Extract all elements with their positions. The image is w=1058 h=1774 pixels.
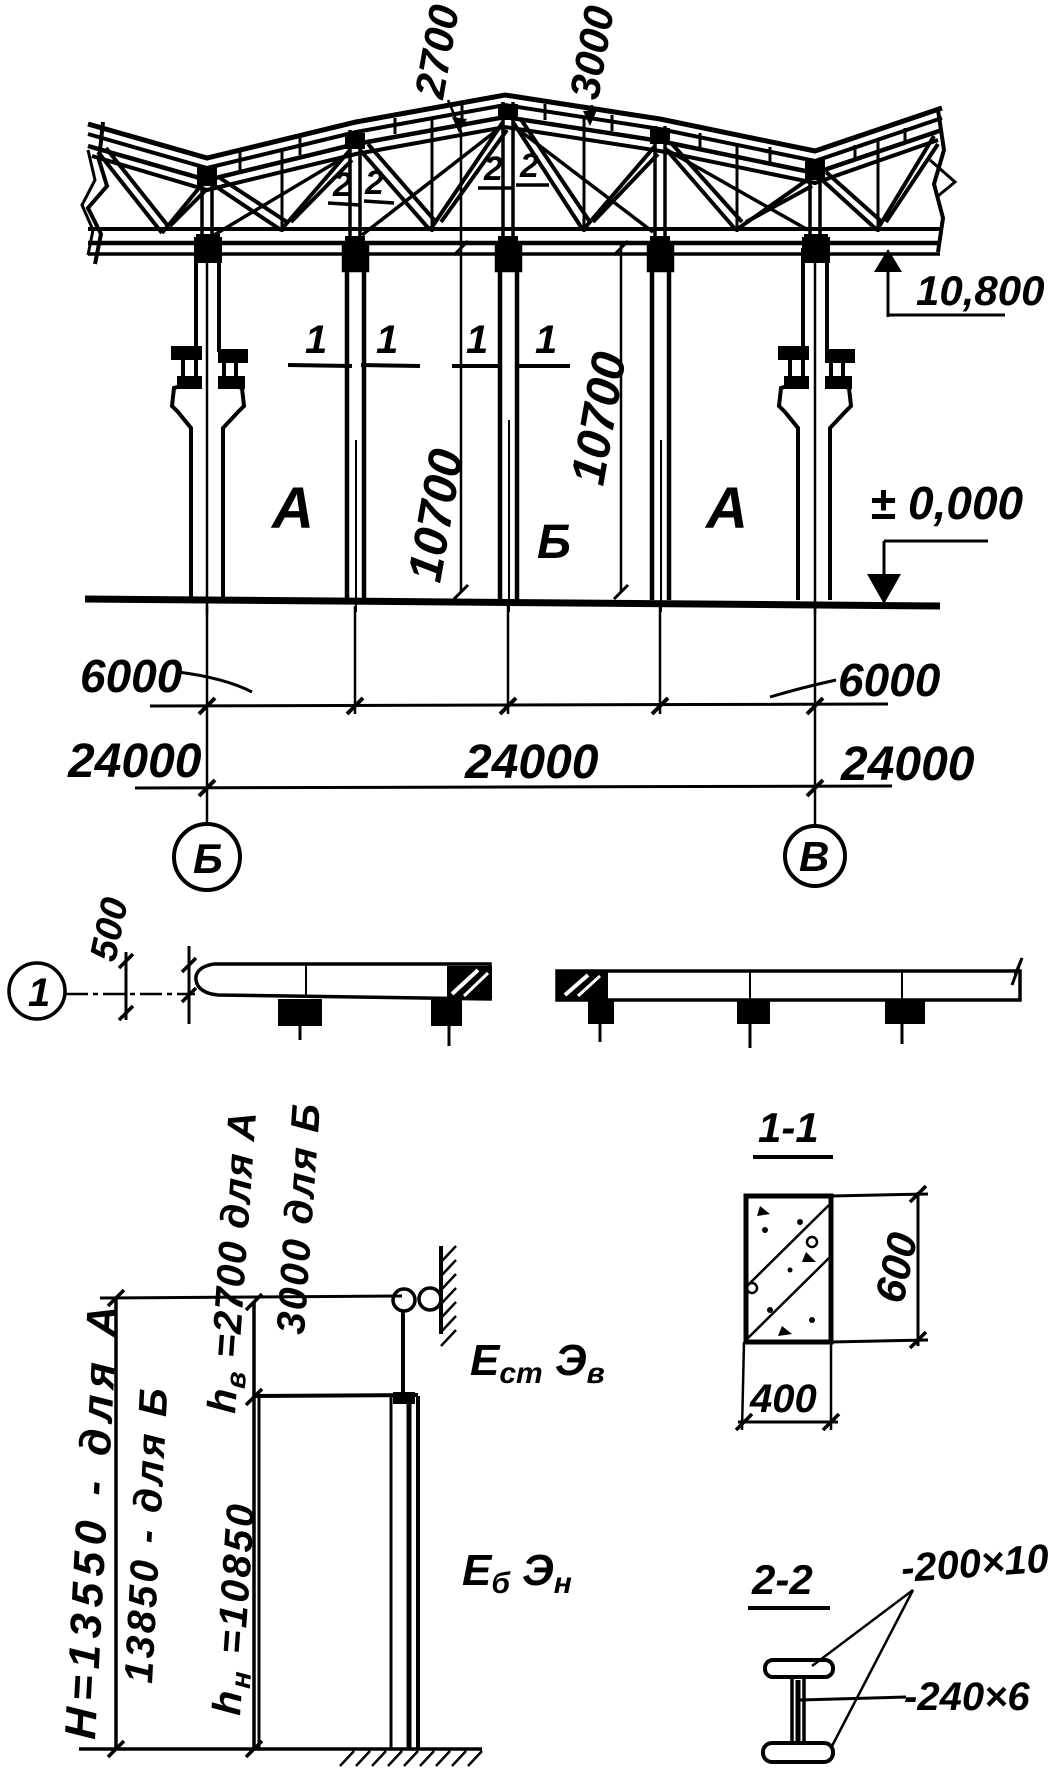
svg-text:1: 1 — [376, 318, 398, 362]
svg-text:2-2: 2-2 — [751, 1556, 813, 1603]
svg-text:10,800: 10,800 — [916, 267, 1044, 314]
svg-text:1: 1 — [535, 318, 557, 362]
svg-text:2: 2 — [332, 166, 352, 204]
svg-text:Б: Б — [537, 516, 571, 569]
svg-text:± 0,000: ± 0,000 — [870, 477, 1024, 529]
svg-text:24000: 24000 — [840, 738, 975, 791]
svg-text:Б: Б — [193, 835, 223, 882]
svg-text:A: A — [270, 476, 314, 541]
svg-text:1: 1 — [466, 318, 488, 362]
svg-text:A: A — [704, 476, 748, 541]
svg-text:400: 400 — [749, 1377, 817, 1421]
svg-text:6000: 6000 — [80, 650, 183, 702]
svg-text:2: 2 — [519, 147, 539, 185]
svg-text:24000: 24000 — [464, 736, 599, 789]
svg-text:-240×6: -240×6 — [904, 1675, 1030, 1719]
svg-text:6000: 6000 — [838, 654, 941, 706]
svg-text:2: 2 — [364, 164, 384, 202]
svg-text:В: В — [799, 833, 829, 880]
svg-text:2: 2 — [483, 150, 503, 188]
svg-text:1-1: 1-1 — [758, 1104, 819, 1151]
svg-text:1: 1 — [305, 318, 327, 362]
svg-text:24000: 24000 — [67, 735, 202, 788]
svg-text:1: 1 — [28, 971, 50, 1015]
